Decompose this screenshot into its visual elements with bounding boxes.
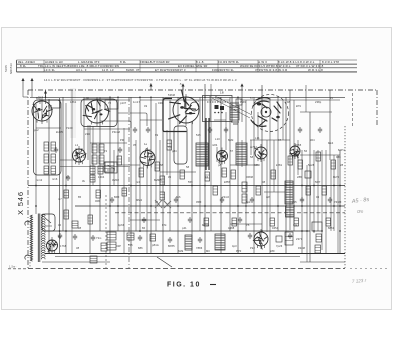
valve B3: [173, 97, 199, 123]
parts table rule 3: [17, 67, 358, 69]
resistor R22: [205, 172, 210, 181]
wire AVC rail: [28, 185, 345, 187]
resistor R21: [180, 170, 185, 179]
wire h seg m: [130, 219, 160, 221]
tuning gang pulley blob: [257, 103, 261, 106]
svg-text:98: 98: [287, 100, 291, 104]
svg-text:8k76: 8k76: [333, 175, 340, 179]
svg-text:6Mk: 6Mk: [178, 249, 184, 253]
capacitor C8: [288, 233, 292, 239]
svg-text:MP8p: MP8p: [202, 223, 210, 227]
capacitor C5: [168, 237, 172, 243]
IF can L8: [236, 143, 247, 165]
parts table tick 3: [195, 60, 197, 72]
frame right dashed upper: [376, 90, 378, 126]
resistor R26: [271, 170, 276, 179]
resistor R20: [167, 140, 172, 150]
wire mid rail: [75, 205, 345, 207]
wire vertical V25: [159, 140, 161, 192]
svg-text:56: 56: [304, 149, 308, 153]
terminal arrow T4: [182, 84, 184, 90]
tuning gang plates: [251, 98, 281, 127]
resistor R31: [331, 160, 336, 169]
wire vertical V66: [337, 155, 339, 253]
svg-text:72: 72: [104, 149, 108, 153]
svg-text:559: 559: [188, 180, 193, 184]
svg-text:M0: M0: [206, 249, 210, 253]
wire vertical V47: [269, 100, 271, 253]
dial cord line 2: [215, 96, 252, 115]
svg-text:4m1: 4m1: [38, 95, 44, 99]
wire dashed vertical right: [352, 93, 354, 126]
capacitor C25: [188, 217, 192, 223]
terminal arrow T6: [241, 84, 243, 90]
svg-text:35: 35: [133, 143, 137, 147]
parts table tick 1: [43, 60, 45, 72]
svg-text:kP9: kP9: [296, 104, 301, 108]
resistor R40: [270, 218, 275, 226]
svg-text:m7: m7: [58, 197, 62, 201]
svg-text:5M7: 5M7: [315, 180, 321, 184]
resistor R44: [107, 242, 116, 250]
svg-text:525: 525: [196, 133, 201, 137]
dial cord line 1: [212, 98, 250, 118]
wire screen rail b: [140, 99, 230, 101]
wire vertical V33: [204, 84, 206, 253]
parts table rule 4: [17, 71, 358, 73]
tuning gang dashed circle: [252, 95, 289, 132]
frame top dashed: [28, 89, 377, 91]
grid stopper box: [276, 236, 282, 242]
svg-text:08: 08: [262, 180, 266, 184]
svg-text:P9mM: P9mM: [112, 130, 120, 134]
wire vertical V18: [123, 128, 125, 253]
wire vertical V39: [237, 97, 239, 253]
svg-text:6P: 6P: [66, 175, 70, 179]
wire vertical V24: [155, 103, 157, 231]
resistor R29: [316, 152, 321, 161]
wire vertical V63: [329, 90, 331, 160]
wire h seg o: [60, 166, 130, 168]
wire h seg a: [84, 128, 130, 130]
svg-text:536M: 536M: [168, 93, 175, 97]
svg-text:87k: 87k: [162, 223, 167, 227]
svg-text:k855: k855: [224, 180, 231, 184]
svg-text:84: 84: [58, 235, 62, 239]
transformer bottom rail: [42, 261, 110, 263]
antenna terminal A2: [31, 79, 33, 91]
wire vertical V44: [257, 112, 259, 140]
dial lamp square 1: [215, 105, 219, 109]
resistor R15: [117, 156, 122, 165]
resistor R48: [90, 256, 97, 263]
resistor R52: [222, 168, 227, 177]
oscillator coil marks: [230, 103, 239, 124]
valve B3 shield can: [174, 126, 187, 164]
capacitor C7: [248, 233, 252, 239]
resistor R19: [160, 176, 165, 185]
svg-text:28: 28: [340, 163, 344, 167]
svg-text:4p66: 4p66: [118, 223, 125, 227]
capacitor C17: [66, 175, 70, 181]
wire h seg h: [160, 171, 196, 173]
svg-text:8 3L: 8 3L: [120, 60, 126, 64]
wire vertical V32: [199, 97, 201, 231]
capacitor C12: [146, 127, 150, 133]
svg-text:81Pm: 81Pm: [338, 148, 345, 152]
wire vertical V40: [241, 140, 243, 167]
resistor R50: [315, 245, 321, 253]
svg-text:F3R33R3TD 3L: F3R33R3TD 3L: [212, 68, 234, 72]
wire h seg g: [300, 154, 340, 156]
capacitor C20: [220, 197, 224, 203]
wire vertical V52: [289, 90, 291, 230]
valve B9 output: [254, 232, 268, 246]
svg-text:2373: 2373: [296, 237, 303, 241]
wire vertical V22: [146, 166, 148, 253]
svg-text:21: 21: [196, 99, 200, 103]
tuning gang hub dot: [265, 111, 267, 113]
svg-text:PM9: PM9: [240, 100, 246, 104]
junction dots: [35, 185, 37, 187]
wire vertical V6: [62, 97, 64, 231]
svg-text:7886: 7886: [196, 246, 203, 250]
capacitor C22: [300, 197, 304, 203]
capacitor C6: [198, 237, 202, 243]
svg-text:5p28: 5p28: [308, 163, 315, 167]
svg-text:W·R·3·L·8: W·R·3·L·8: [308, 68, 323, 72]
resistor R34: [88, 215, 93, 224]
resistor R53: [242, 182, 247, 192]
svg-text:5265: 5265: [4, 65, 8, 72]
svg-text:8pM: 8pM: [228, 138, 234, 142]
wire right top link: [300, 111, 332, 113]
wire vertical V19: [130, 97, 132, 253]
svg-text:p12: p12: [34, 128, 39, 132]
wire vertical V13: [92, 126, 94, 185]
wire vertical V28: [169, 100, 171, 231]
mains lead dashed: [29, 262, 31, 268]
dial scale hatch: [207, 101, 230, 103]
capacitor C19: [174, 197, 178, 203]
svg-text:FIG. 10: FIG. 10: [167, 282, 201, 289]
svg-text:04: 04: [316, 195, 320, 199]
svg-text:1,5m··: 1,5m··: [9, 265, 17, 269]
svg-text:5pk: 5pk: [246, 200, 251, 204]
svg-text:008: 008: [95, 199, 100, 203]
mains transformer T1 core: [37, 214, 39, 263]
coil L9: [285, 181, 293, 204]
resistor R51: [285, 232, 293, 245]
wire vertical V3: [45, 90, 47, 104]
svg-text:904: 904: [310, 138, 315, 142]
resistor R30: [322, 186, 327, 195]
svg-text:P45M: P45M: [334, 200, 341, 204]
wire bend L2b: [118, 113, 147, 126]
svg-text:7p26: 7p26: [276, 244, 283, 248]
mains transformer T1 secondary: [41, 214, 45, 259]
wire vertical V51: [285, 97, 287, 253]
svg-text:Pk2: Pk2: [250, 246, 255, 250]
wire h seg e: [214, 119, 226, 121]
svg-text:05M: 05M: [196, 200, 202, 204]
wire dashed vertical left: [105, 195, 107, 268]
parts table tick 2: [139, 60, 141, 72]
wire h seg c: [36, 127, 61, 129]
wire vertical V54: [297, 140, 299, 175]
capacitor C3: [91, 235, 95, 241]
svg-text:FR3EL8UT KNA8 3R: FR3EL8UT KNA8 3R: [140, 60, 170, 64]
coil L10: [286, 206, 295, 217]
svg-text:58: 58: [186, 165, 190, 169]
tuning gang rotor: [261, 107, 271, 117]
svg-text:8·3 R·L 3T8: 8·3 R·L 3T8: [322, 60, 339, 64]
svg-text:86M: 86M: [114, 195, 120, 199]
svg-text:575: 575: [128, 243, 133, 247]
wire vertical V9: [75, 148, 77, 163]
svg-text:k4: k4: [330, 96, 333, 100]
svg-text:219: 219: [85, 132, 90, 136]
svg-text:0454: 0454: [272, 226, 279, 230]
svg-text:0̄m: 0̄m: [357, 209, 364, 214]
wire vertical V45: [261, 85, 263, 231]
wire vertical V20: [135, 140, 137, 231]
svg-text:m84: m84: [212, 143, 218, 147]
svg-text:58: 58: [250, 155, 254, 159]
mains plug hook lower: [25, 255, 31, 260]
valve B2: [86, 100, 109, 123]
parts table tick 4: [217, 60, 219, 72]
svg-text:pp: pp: [86, 97, 90, 100]
coupling box L2: [105, 100, 118, 109]
svg-text:m742: m742: [250, 145, 257, 149]
wire ground rail 2: [55, 256, 300, 258]
svg-text:7m: 7m: [168, 145, 172, 149]
svg-text:L3·K 3L: L3·K 3L: [44, 68, 55, 72]
output coil L11: [185, 235, 192, 250]
svg-text:238p: 238p: [315, 100, 322, 104]
svg-text:3M: 3M: [48, 104, 52, 108]
wire vertical V2: [39, 97, 41, 104]
wire vertical V67: [339, 150, 341, 253]
resistor R37: [160, 192, 165, 200]
svg-text:31k: 31k: [293, 223, 298, 227]
resistor R7: [92, 144, 97, 153]
wire h seg n: [230, 223, 262, 225]
wire vertical V42: [250, 140, 252, 155]
svg-text:p137: p137: [120, 101, 127, 105]
svg-text:986: 986: [336, 155, 341, 159]
wire vertical V35: [216, 147, 218, 162]
dial lamp square 2: [220, 106, 224, 110]
capacitor C4: [138, 235, 142, 241]
capacitor C21: [250, 197, 254, 203]
resistor R24: [231, 170, 236, 179]
output transformer T2: [215, 234, 225, 250]
svg-text:m16: m16: [52, 177, 58, 181]
svg-text:23m6: 23m6: [222, 195, 229, 199]
svg-text:8MM5: 8MM5: [154, 178, 162, 182]
wire vertical V56: [305, 85, 307, 112]
scan shadow band: [70, 88, 76, 138]
wire vertical V29: [177, 97, 179, 253]
frame right dotted lower: [344, 126, 346, 268]
wire vertical V26: [162, 97, 164, 253]
resistor R47: [101, 243, 107, 251]
mains switch marks: [45, 218, 52, 226]
wire vertical V4: [48, 99, 50, 253]
svg-text:k281: k281: [276, 163, 283, 167]
sheet bottom dashed line: [8, 268, 28, 270]
resistor R39: [232, 218, 237, 226]
svg-text:288: 288: [297, 175, 302, 179]
svg-text:Mk4: Mk4: [328, 141, 334, 145]
capacitor C24: [142, 217, 146, 223]
wire vertical V57: [306, 165, 308, 262]
svg-text:38: 38: [78, 226, 82, 230]
switch box S1: [105, 162, 117, 173]
svg-text:65pk: 65pk: [215, 96, 222, 100]
dial assembly box: [203, 96, 233, 122]
parts table tick 6: [277, 60, 279, 72]
svg-text:38: 38: [76, 246, 80, 250]
wire vertical V58: [309, 112, 311, 262]
parts table left edge: [16, 60, 18, 72]
svg-text:47: 47: [278, 138, 282, 142]
svg-text:73m: 73m: [96, 236, 102, 240]
parts table rule 1: [17, 59, 358, 61]
svg-text:1304: 1304: [98, 175, 105, 179]
wire vertical V31: [191, 122, 193, 253]
svg-text:P228: P228: [66, 126, 73, 130]
right top box: [305, 171, 311, 178]
capacitor C16: [318, 127, 322, 133]
wire vertical V21: [139, 97, 141, 231]
wire vertical V30: [182, 84, 184, 97]
svg-text:6k6: 6k6: [176, 195, 181, 199]
svg-text:m4: m4: [136, 180, 140, 184]
resistor R11: [90, 166, 95, 174]
capacitor C2: [73, 234, 77, 240]
resistor R12: [98, 166, 103, 174]
svg-text:87: 87: [230, 149, 234, 153]
wire vertical V1: [35, 104, 37, 214]
svg-text:kkM5: kkM5: [56, 130, 63, 134]
svg-text:p8: p8: [218, 163, 222, 167]
svg-text:14 b L·8 W 3RL3TR3W3T · FR3: 14 b L·8 W 3RL3TR3W3T · FR3R3W3 L·3 · 3T…: [44, 78, 237, 82]
svg-text:1m17: 1m17: [133, 100, 140, 104]
svg-text:18: 18: [220, 91, 224, 95]
svg-text:A3·L· 3: A3·L· 3: [76, 68, 87, 72]
wire bottom right link: [300, 261, 345, 263]
wire bend L2a: [100, 121, 131, 128]
svg-text:PM: PM: [120, 138, 124, 142]
svg-text:068M: 068M: [246, 175, 253, 179]
valve B5: [140, 151, 155, 166]
resistor R46: [150, 234, 156, 241]
antenna coil box: [49, 100, 60, 108]
valve B2 shield can: [81, 99, 117, 127]
svg-text:86: 86: [142, 226, 146, 230]
resistor R1: [44, 142, 49, 151]
dial inner vertical: [209, 96, 211, 121]
IF can L7: [196, 143, 208, 166]
wire vertical V65: [333, 155, 335, 231]
caption dash: [210, 284, 216, 286]
valve B1 shield can: [34, 100, 62, 175]
svg-text:4p3: 4p3: [232, 244, 237, 248]
svg-text:L1: L1: [75, 143, 79, 147]
oscillator trimmer box: [236, 99, 242, 105]
wire dashed mid rail: [115, 212, 345, 214]
svg-text:p8mk: p8mk: [152, 243, 159, 247]
frame left dashed: [27, 90, 29, 268]
wire h seg d: [140, 119, 162, 121]
parts table tick 5: [257, 60, 259, 72]
wire vertical V53: [293, 100, 295, 231]
svg-text:72: 72: [108, 101, 112, 105]
resistor R42: [326, 218, 331, 226]
wire dial drive: [241, 90, 243, 122]
wire vertical V59: [313, 150, 315, 233]
right mid box: [312, 222, 322, 231]
valve B10 rectifier: [47, 240, 58, 251]
resistor R41: [294, 218, 299, 226]
resistor R23: [213, 186, 218, 195]
svg-text:485: 485: [254, 163, 259, 167]
wire vertical V5: [59, 98, 61, 253]
wire vertical V46: [266, 140, 268, 232]
svg-text:37: 37: [155, 200, 159, 204]
capacitor C13: [208, 127, 212, 133]
svg-text:1e: 1e: [144, 142, 148, 146]
wire ground rail: [45, 253, 345, 255]
valve B6: [217, 151, 228, 162]
svg-text:7055: 7055: [295, 143, 302, 147]
svg-text:3T3WTW·R·3·8·W·3·R: 3T3WTW·R·3·8·W·3·R: [255, 68, 287, 72]
svg-text:p84: p84: [172, 149, 177, 153]
svg-text:8LW8· 3T: 8LW8· 3T: [126, 68, 140, 72]
svg-text:4488: 4488: [228, 226, 235, 230]
svg-text:mP: mP: [266, 195, 270, 199]
wire vertical V62: [325, 150, 327, 253]
svg-text:88: 88: [160, 163, 164, 167]
wire vertical V16: [113, 150, 115, 185]
resistor R53: [288, 156, 293, 165]
resistor R35: [96, 190, 101, 198]
resistor R32: [64, 210, 69, 219]
capacitor C1: [58, 233, 62, 239]
svg-text:X 546: X 546: [16, 191, 25, 215]
resistor R6: [51, 166, 56, 174]
svg-text:3M02: 3M02: [112, 178, 119, 182]
wire vertical V64: [330, 160, 332, 231]
svg-text:49: 49: [144, 104, 148, 108]
mains transformer T1 primary: [30, 215, 32, 261]
svg-text:3P0: 3P0: [146, 148, 151, 152]
svg-text:8853: 8853: [328, 226, 335, 230]
switch marks S1: [107, 165, 115, 170]
sheet bottom dashed faint right: [350, 268, 388, 270]
capacitor C14: [224, 127, 228, 133]
diagonal pointer: [157, 257, 172, 267]
resistor R36: [64, 190, 69, 198]
wire vertical V15: [109, 97, 111, 253]
svg-text:P5: P5: [246, 223, 250, 227]
svg-text:L10: L10: [215, 137, 220, 141]
resistor R38: [204, 218, 209, 226]
wire vertical V41: [245, 100, 247, 231]
